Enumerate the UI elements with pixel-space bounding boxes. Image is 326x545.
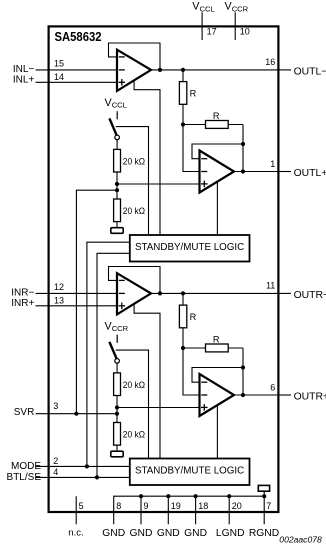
node INL- (pin 15) — [13, 59, 117, 76]
wire mute control op-amp AR — [134, 304, 160, 458]
node INR- (pin 12) — [11, 282, 117, 299]
pin 16 OUTL- — [265, 57, 326, 78]
svg-text:OUTR+: OUTR+ — [294, 392, 326, 403]
svg-text:SA58632: SA58632 — [55, 30, 102, 44]
svg-text:3: 3 — [53, 401, 58, 411]
svg-text:9: 9 — [144, 501, 149, 511]
svg-text:20 kΩ: 20 kΩ — [123, 206, 145, 216]
node MODE rail junction — [85, 464, 89, 468]
pin 3 SVR — [14, 401, 117, 418]
svg-text:R: R — [213, 111, 220, 121]
node output junction BR — [241, 393, 245, 397]
wire feedback loop op-amp BL — [192, 144, 243, 159]
node divider junction R2 — [181, 346, 185, 350]
pin 2 MODE — [11, 456, 130, 472]
wire switch L to standby logic — [116, 127, 149, 235]
pin 17 lead — [202, 12, 217, 40]
svg-text:002aac078: 002aac078 — [279, 535, 322, 545]
standby/mute logic (R channel) — [130, 459, 250, 486]
svg-text:7: 7 — [266, 501, 271, 511]
wire divider R — [116, 396, 118, 423]
svg-text:20 kΩ: 20 kΩ — [123, 429, 145, 439]
svg-text:17: 17 — [207, 26, 217, 36]
resistor 20 kOhm upper (L channel) — [114, 149, 146, 172]
ground (L channel) — [111, 228, 123, 234]
svg-text:20 kΩ: 20 kΩ — [123, 156, 145, 166]
pin 9 GND — [130, 494, 153, 539]
pin 7 RGND — [249, 485, 279, 538]
node feedback top junction BR — [241, 365, 245, 369]
wire resistor to ground R — [116, 445, 118, 451]
resistor R (vertical, R channel) — [179, 305, 196, 328]
svg-text:OUTL−: OUTL− — [294, 67, 326, 78]
wire mute control op-amp BL — [216, 181, 218, 235]
node INR+ (pin 13) — [11, 296, 117, 309]
wire mute control op-amp AL — [134, 81, 160, 235]
wire SVR rail to divider node — [76, 190, 117, 414]
svg-text:GND: GND — [130, 528, 153, 539]
svg-text:SVR: SVR — [14, 407, 35, 418]
node feedback top junction BL — [241, 142, 245, 146]
svg-text:STANDBY/MUTE LOGIC: STANDBY/MUTE LOGIC — [135, 465, 244, 476]
svg-text:13: 13 — [54, 296, 64, 306]
wire non-inverting input op-amp BR — [117, 407, 200, 409]
wire node to horizontal R L — [183, 124, 243, 126]
pin 8 GND — [102, 501, 125, 539]
wire feedback loop op-amp BR — [192, 368, 243, 383]
resistor 20 kOhm upper (R channel) — [114, 373, 146, 396]
svg-text:5: 5 — [79, 501, 84, 511]
wire inverting input op-amp BR — [183, 348, 200, 395]
resistor R (horizontal feedback, R channel) — [206, 334, 229, 352]
pin 11 OUTR- — [266, 280, 326, 301]
wire non-inverting input op-amp BL — [117, 183, 200, 185]
wire horizontal R to output L — [242, 125, 244, 172]
svg-text:INR+: INR+ — [11, 298, 34, 309]
wire MODE rail to standby logic L — [87, 242, 130, 466]
wire BTL/SE rail to standby logic L — [97, 253, 130, 477]
op-amp BR (BTL stage) — [200, 374, 235, 416]
wire resistor to ground L — [116, 222, 118, 228]
svg-text:GND: GND — [157, 528, 180, 539]
pin 1 OUTL+ — [270, 159, 326, 179]
svg-text:GND: GND — [102, 528, 125, 539]
wire feedback loop op-amp AR — [109, 267, 161, 294]
svg-text:4: 4 — [53, 467, 58, 477]
node feedback junction AR — [158, 291, 162, 295]
wire output op-amp BL to pin 1 — [234, 171, 278, 173]
op-amp BL (BTL stage) — [200, 151, 235, 193]
wire horizontal R to output R — [242, 348, 244, 395]
svg-text:R: R — [190, 312, 197, 322]
svg-text:LGND: LGND — [216, 528, 245, 539]
node feedback junction AL — [158, 68, 162, 72]
node INL+ (pin 14) — [13, 72, 117, 85]
wire R vertical L — [182, 70, 184, 125]
svg-text:6: 6 — [270, 382, 275, 392]
svg-text:R: R — [190, 88, 197, 98]
svg-text:INL+: INL+ — [13, 75, 35, 86]
pin 10 lead — [235, 12, 250, 40]
svg-text:R: R — [213, 334, 220, 344]
svg-text:20: 20 — [232, 501, 242, 511]
node BTL/SE rail junction — [95, 475, 99, 479]
svg-text:GND: GND — [184, 528, 207, 539]
pin 6 OUTR+ — [270, 382, 326, 402]
node divider junction L2 — [181, 122, 185, 126]
wire R vertical R — [182, 293, 184, 348]
wire divider L — [116, 172, 118, 199]
svg-text:1: 1 — [270, 159, 275, 169]
pin 19 GND — [157, 494, 181, 539]
resistor 20 kOhm lower (R channel) — [114, 423, 146, 446]
node output junction BL — [241, 169, 245, 173]
wire node to horizontal R R — [183, 347, 243, 349]
standby/mute logic (L channel) — [130, 235, 250, 262]
wire feedback loop op-amp AL — [109, 43, 161, 70]
node resistor tap junction R1 — [181, 291, 185, 295]
node divider tap L upper — [115, 182, 119, 186]
wire ground bus — [114, 496, 265, 524]
op-amp AR (input stage) — [117, 273, 151, 314]
svg-text:10: 10 — [240, 26, 250, 36]
node SVR rail junction — [74, 412, 78, 416]
svg-text:15: 15 — [54, 59, 64, 69]
pin 20 LGND — [216, 494, 245, 539]
node divider tap L lower — [115, 188, 119, 192]
ground (R channel) — [111, 451, 123, 457]
pin 4 BTL/SE — [7, 467, 130, 483]
svg-text:RGND: RGND — [249, 528, 279, 539]
IC outline SA58632 — [49, 26, 279, 512]
svg-text:11: 11 — [266, 280, 275, 290]
svg-text:2: 2 — [53, 456, 58, 466]
svg-text:20 kΩ: 20 kΩ — [123, 380, 145, 390]
svg-text:8: 8 — [116, 501, 121, 511]
node resistor tap junction L1 — [181, 68, 185, 72]
resistor 20 kOhm lower (L channel) — [114, 199, 146, 222]
svg-text:n.c.: n.c. — [68, 528, 83, 539]
pin 5 n.c. — [68, 496, 83, 538]
wire switch R to standby logic — [116, 350, 149, 458]
svg-text:OUTR−: OUTR− — [294, 290, 326, 301]
wire inverting input op-amp BL — [183, 125, 200, 172]
svg-text:OUTL+: OUTL+ — [294, 168, 326, 179]
svg-text:12: 12 — [54, 282, 64, 292]
wire mute control op-amp BR — [216, 405, 218, 459]
node divider tap R lower — [115, 412, 119, 416]
switch SL to VCCL — [109, 111, 119, 149]
pin 18 GND — [184, 494, 208, 539]
switch SR to VCCR — [109, 335, 119, 373]
op-amp AL (input stage) — [117, 50, 151, 91]
wire output op-amp AR to pin 11 — [151, 292, 278, 294]
svg-text:STANDBY/MUTE LOGIC: STANDBY/MUTE LOGIC — [135, 242, 244, 253]
svg-text:19: 19 — [171, 501, 181, 511]
resistor R (horizontal feedback, L channel) — [206, 111, 229, 129]
wire output op-amp BR to pin 6 — [234, 394, 278, 396]
svg-text:16: 16 — [265, 57, 275, 67]
resistor R (vertical, L channel) — [179, 82, 196, 105]
svg-text:14: 14 — [54, 72, 64, 82]
node divider tap R upper — [115, 405, 119, 409]
wire output op-amp AL to pin 16 — [151, 69, 278, 71]
svg-text:18: 18 — [198, 501, 208, 511]
